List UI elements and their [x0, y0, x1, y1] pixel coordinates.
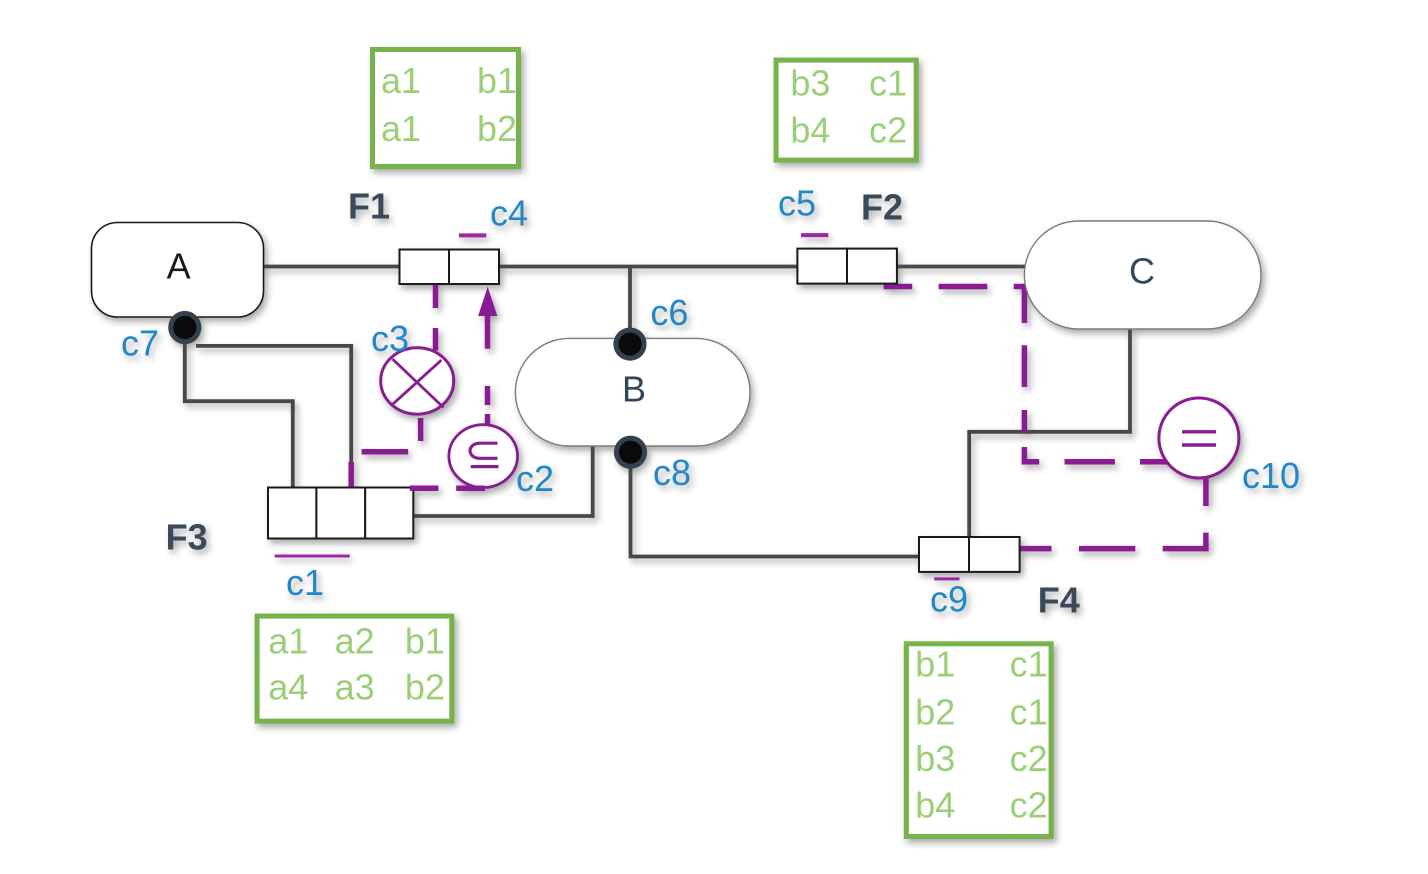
- wire c7 token to F3 middle cell: [196, 346, 351, 488]
- svg-text:a1: a1: [381, 108, 421, 149]
- edge c3 circle to F3 middle (dashed elbow): [351, 418, 420, 488]
- svg-text:C: C: [1129, 250, 1155, 291]
- svg-text:b1: b1: [477, 60, 517, 101]
- svg-text:c2: c2: [869, 110, 907, 151]
- transition F4: [919, 537, 1020, 572]
- tick c4: [459, 233, 486, 237]
- svg-text:c2: c2: [516, 458, 554, 499]
- svg-text:a4: a4: [268, 667, 308, 708]
- transition F2: [797, 249, 897, 284]
- tick c9: [934, 577, 959, 580]
- svg-text:b2: b2: [477, 108, 517, 149]
- svg-text:c9: c9: [930, 579, 968, 620]
- tick c5: [801, 233, 828, 237]
- svg-text:F3: F3: [166, 517, 208, 558]
- svg-text:A: A: [167, 246, 191, 287]
- wire junction to B top (c6): [628, 267, 632, 345]
- table T2 text: [790, 62, 907, 150]
- token c7: [168, 311, 201, 344]
- svg-text:b4: b4: [790, 110, 830, 151]
- svg-text:c8: c8: [653, 452, 691, 493]
- svg-text:c2: c2: [1010, 738, 1048, 779]
- svg-text:c2: c2: [1010, 785, 1048, 826]
- edge F2 to c10 circle (dashed): [884, 287, 1167, 462]
- circle symbol c10 (equals circle): [1159, 398, 1239, 478]
- table T2 (F2 bindings): [776, 60, 916, 160]
- svg-text:c1: c1: [869, 62, 907, 103]
- svg-text:c5: c5: [778, 183, 816, 224]
- svg-text:b2: b2: [915, 691, 955, 732]
- edge F1 to c3 circle (dashed): [433, 285, 439, 351]
- svg-text:F2: F2: [861, 187, 903, 228]
- svg-text:B: B: [622, 368, 646, 409]
- table T4 text: [915, 644, 1047, 826]
- svg-text:c4: c4: [490, 192, 528, 233]
- token c8: [614, 436, 647, 469]
- svg-text:a3: a3: [335, 667, 375, 708]
- circle symbol c3 (crossed circle): [381, 348, 454, 414]
- table T4 (F4 bindings): [906, 644, 1051, 837]
- wire A to F1: [263, 265, 400, 269]
- table T3 (F3 bindings): [257, 616, 452, 721]
- wire F1 to F2: [499, 265, 798, 269]
- svg-text:a1: a1: [268, 620, 308, 661]
- svg-text:a1: a1: [381, 60, 421, 101]
- transition F3: [268, 488, 413, 539]
- transition F1: [400, 250, 500, 285]
- svg-text:b1: b1: [915, 644, 955, 685]
- table T1 (F1 bindings): [373, 50, 519, 167]
- edge c2 circle to F1 with arrow (dashed): [485, 300, 491, 424]
- svg-text:c1: c1: [1010, 644, 1048, 685]
- svg-text:F1: F1: [348, 186, 390, 227]
- svg-text:b3: b3: [790, 62, 830, 103]
- table T3 text: [268, 620, 445, 707]
- wire B bottom to F3 right: [414, 446, 593, 516]
- svg-text:c1: c1: [286, 562, 324, 603]
- svg-text:c6: c6: [650, 292, 688, 333]
- wire F2 to C: [896, 265, 1025, 269]
- edge F3 to c2 circle (dashed): [410, 485, 485, 491]
- place A: [92, 223, 264, 318]
- wire C bottom to F4 top: [969, 329, 1130, 537]
- wire c7 token to F3 left cell: [185, 328, 293, 488]
- svg-text:b4: b4: [915, 785, 955, 826]
- svg-text:c3: c3: [371, 318, 409, 359]
- circle symbol c2 (subset-equal circle): [449, 425, 518, 488]
- svg-text:b1: b1: [405, 620, 445, 661]
- table T1 text: [381, 60, 517, 149]
- wire c8 token to F4 left: [631, 452, 920, 557]
- place C: [1024, 221, 1261, 329]
- arrowhead into F1: [478, 287, 497, 316]
- svg-text:b2: b2: [405, 667, 445, 708]
- svg-text:F4: F4: [1038, 580, 1080, 621]
- place B: [515, 338, 750, 446]
- svg-text:a2: a2: [335, 620, 375, 661]
- token c6: [613, 328, 646, 361]
- svg-text:c10: c10: [1242, 455, 1300, 496]
- svg-text:c7: c7: [121, 323, 159, 364]
- svg-text:c1: c1: [1010, 691, 1048, 732]
- tick c1: [275, 555, 350, 558]
- edge c10 circle to F4 (dashed): [1020, 479, 1206, 549]
- svg-text:b3: b3: [915, 738, 955, 779]
